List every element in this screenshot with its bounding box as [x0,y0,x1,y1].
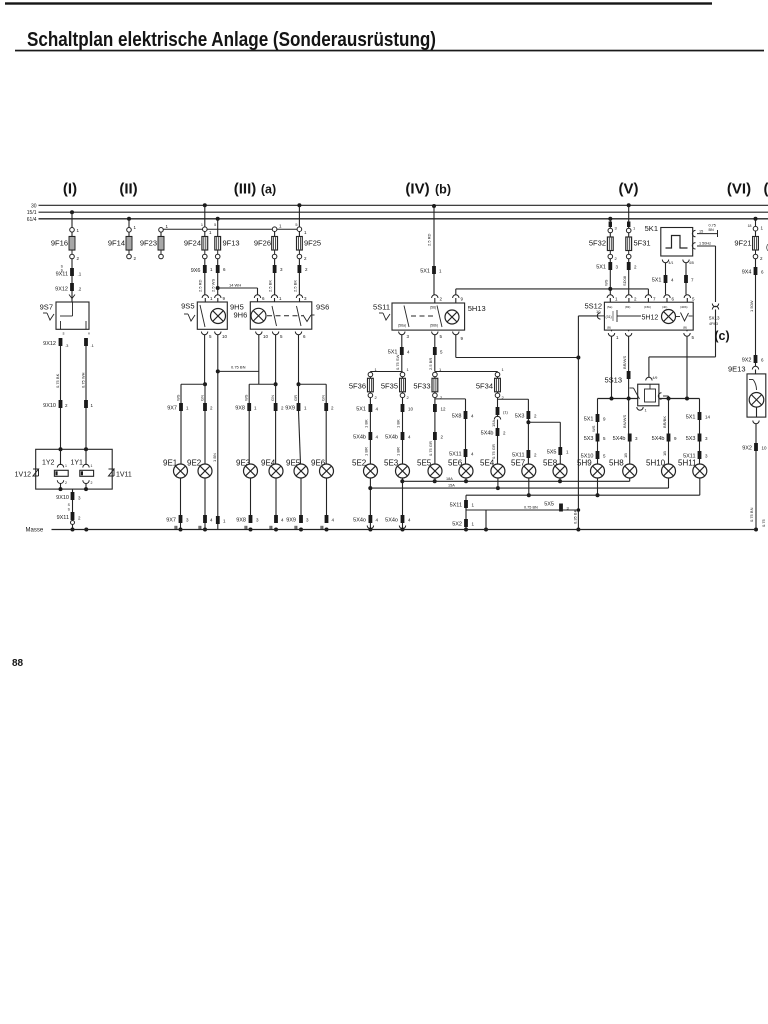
svg-text:(56b): (56b) [430,324,438,328]
node lineC-5H9 [596,493,600,497]
bus 30 [39,204,768,206]
wire [402,398,404,404]
switch 5S11 box [373,303,465,331]
fuse 5F36 [349,367,378,400]
svg-text:2: 2 [305,267,308,272]
connector pin2 [622,262,637,286]
connector 5X4b 3 [481,428,506,459]
connector 9X4 pin6 [742,267,764,276]
svg-text:9X8: 9X8 [235,406,245,412]
connector 5X13 [709,304,720,357]
svg-text:1: 1 [615,297,618,302]
wire [527,419,529,450]
svg-text:▦: ▦ [174,525,178,530]
svg-text:1: 1 [209,230,212,235]
svg-text:1: 1 [166,224,169,229]
wire [699,478,701,495]
svg-text:1 50W: 1 50W [749,300,754,312]
lamp 9E2 [187,459,212,479]
wire [559,455,561,464]
fuse 9F13 [215,237,240,251]
svg-text:(31): (31) [606,315,612,319]
column label (a) [261,183,276,197]
bus 61/4 [39,218,768,220]
svg-text:3: 3 [256,518,259,523]
svg-text:9F13: 9F13 [223,239,240,248]
column label (IV) [405,181,429,198]
svg-text:5X4b: 5X4b [652,436,665,442]
svg-text:1: 1 [134,225,137,230]
wire [699,399,701,413]
connector 5X4b 2 [385,432,411,456]
svg-text:5X3: 5X3 [584,436,594,442]
wire [217,219,219,237]
svg-text:9X4: 9X4 [742,270,752,276]
wire line A 18A [402,477,629,482]
svg-text:9X12: 9X12 [43,341,56,347]
fuse 5F31 [626,237,651,251]
svg-text:1: 1 [279,296,282,301]
svg-text:12: 12 [441,407,447,412]
connector 5X11 pin1 [450,500,475,509]
connector 5X3 pin5 [584,434,606,443]
lamp 5E3 [384,459,410,479]
svg-text:(15b): (15b) [644,305,651,309]
svg-text:5X11: 5X11 [449,452,461,458]
svg-text:2: 2 [78,516,81,521]
wire [629,478,631,481]
node 5S12-t1-join [608,287,612,291]
node bus-9F13 [216,217,220,221]
svg-text:5X4o: 5X4o [353,518,366,524]
svg-text:BN: BN [709,228,715,232]
svg-text:3: 3 [407,334,410,339]
node ground-5X5 [484,528,488,532]
svg-text:2: 2 [281,406,284,411]
connector 5X11 pin4 [449,449,474,458]
svg-text:18: 18 [748,224,752,228]
solenoid 1Y1 [71,449,94,489]
connector 5X10 pin5 [581,451,606,460]
terminal 5S13-r [658,393,668,399]
node ground-9E1 [179,528,208,532]
wire [434,440,436,464]
wire [626,205,636,237]
svg-text:5F31: 5F31 [634,239,651,248]
svg-text:15: 15 [699,230,703,234]
node 0.75BN-branch [216,369,220,373]
svg-text:6: 6 [262,296,265,301]
svg-text:15A: 15A [448,484,455,488]
svg-text:1: 1 [407,367,410,372]
connector 5X1 pin12 [433,404,446,412]
svg-text:BR/BK: BR/BK [662,416,667,428]
svg-text:1: 1 [645,408,648,413]
terminal 9S5-10 [215,332,228,530]
terminal 5S11-9 [453,332,464,358]
terminal 5S11-4 [432,332,443,348]
svg-text:.1: .1 [78,272,82,277]
svg-text:5X8: 5X8 [452,414,462,420]
svg-text:4: 4 [376,407,379,412]
switch 5S13 [604,376,658,406]
wire line D 0.75 BN [466,506,580,512]
node lineA-5E8 [558,479,562,483]
svg-text:GN: GN [321,395,326,401]
svg-text:5H8: 5H8 [609,459,624,468]
column label (VI) [727,181,751,198]
svg-text:3: 3 [615,226,618,231]
node bus-9F14 [127,217,131,221]
node lineA-5E6 [464,479,468,483]
svg-text:2: 2 [91,481,93,485]
connector 9X7 lower [166,515,213,524]
svg-text:4: 4 [376,435,379,440]
svg-text:9F24: 9F24 [184,239,201,248]
svg-text:5F35: 5F35 [381,382,398,391]
svg-text:5: 5 [209,334,212,339]
svg-text:1 BR: 1 BR [396,447,401,456]
wire [272,254,277,265]
svg-text:5X1: 5X1 [356,407,366,413]
wire [369,478,371,515]
node 9E34-split [249,382,277,403]
svg-text:9F25: 9F25 [304,239,321,248]
node feed-3 [667,397,671,401]
wire [61,408,87,449]
wire [215,273,226,302]
fuse 9F24 [184,237,208,251]
wire [752,363,758,374]
wire 0.75 WH [81,346,87,400]
bus 15/1 [39,211,768,213]
svg-text:BR/WS: BR/WS [622,356,627,369]
svg-text:5E2: 5E2 [352,459,367,468]
svg-text:.3: .3 [65,343,69,348]
svg-text:GN: GN [200,395,205,401]
svg-text:2: 2 [77,256,80,261]
wire fuse feed right [435,355,498,372]
svg-text:0.75 GR: 0.75 GR [491,444,496,459]
svg-text:GR: GR [293,395,298,401]
svg-text:(IV): (IV) [405,181,429,198]
connector 5X5 pin1 [547,447,569,456]
terminal 9H6-5 [272,332,283,385]
svg-text:5: 5 [603,436,606,441]
svg-text:1: 1 [91,403,94,408]
svg-text:9: 9 [223,296,226,301]
svg-text:10: 10 [762,446,768,451]
connector 5X1 pin4 relay [652,275,674,295]
lamp 9E4 [261,459,283,479]
svg-text:(a): (a) [261,183,276,197]
lamp 5H10 [646,459,676,479]
svg-text:4: 4 [671,278,674,283]
svg-text:4: 4 [408,518,411,523]
connector pin 3 [268,265,284,292]
wire [597,442,599,452]
svg-text:9X10: 9X10 [56,495,69,501]
wire [434,478,436,481]
bus label 30 [31,204,37,210]
svg-text:9F23: 9F23 [140,239,157,248]
lamp 5H12 [662,310,676,324]
svg-text:▦: ▦ [244,525,248,530]
wire [127,219,137,237]
svg-text:2: 2 [134,256,137,261]
node 9E56-split [297,382,327,403]
fuse partial right edge [761,245,768,528]
svg-text:5F32: 5F32 [589,239,606,248]
wire 50Hz output [692,242,715,302]
lamp 9E6 [311,459,334,479]
connector 5X4o [353,515,378,524]
wire [591,422,598,434]
terminal 5S12-10 [596,309,604,319]
connector 5X8 pin4 [452,411,474,420]
svg-text:3: 3 [635,436,638,441]
svg-text:4: 4 [408,435,411,440]
svg-text:GN: GN [270,395,275,401]
wire [71,520,75,530]
node feed-4 [685,397,689,401]
terminal 5S13-b [637,407,648,413]
svg-text:(4Rb): (4Rb) [680,305,688,309]
connector 9X6 [191,265,213,292]
svg-text:S: S [68,503,71,507]
connector 5X3 pin3 [686,434,708,443]
svg-text:5X4b: 5X4b [613,436,626,442]
wire [432,274,443,303]
svg-text:15A: 15A [491,420,496,427]
wire [497,436,499,464]
connector 9X9 [285,403,334,412]
svg-text:9H6: 9H6 [234,311,248,320]
node bus-9F21 [754,217,758,221]
connector 9X10 pin 3 [56,492,81,501]
lamp 5E8 [543,459,567,479]
svg-text:5X1: 5X1 [596,265,606,271]
column label (III) [234,181,257,198]
wire [748,219,764,237]
svg-text:5X2: 5X2 [452,522,462,528]
svg-text:5: 5 [440,350,443,355]
wire [699,442,701,452]
node bus-5S11 [432,204,436,208]
wire branch [498,398,529,411]
connector pin7 relay [684,275,694,295]
fuse 9F21 [734,237,758,251]
svg-text:9X8: 9X8 [236,518,246,524]
wire 1 BN [212,453,217,462]
label (c) [714,329,729,343]
node feed-1 [610,397,614,401]
svg-text:9X12: 9X12 [55,287,68,293]
connector 9X2 pin10 [742,443,767,452]
lamp 5H9 [577,459,605,479]
svg-text:10: 10 [596,309,601,314]
svg-text:Masse: Masse [26,528,44,534]
svg-text:Schaltplan elektrische Anlage: Schaltplan elektrische Anlage (Sonderaus… [27,29,436,51]
node ground-b [573,509,581,531]
svg-text:2: 2 [304,256,307,261]
connector 5X1 pin9 [584,414,606,423]
terminal 5K1-4/5 [683,260,694,276]
svg-text:1: 1 [439,269,442,274]
svg-text:1: 1 [186,406,189,411]
connector 5X1 pin3 [596,262,618,286]
node b-junction [576,356,580,360]
svg-text:(56): (56) [430,306,436,310]
title Schaltplan elektrische Anlage [27,29,436,51]
svg-text:5H13: 5H13 [468,304,486,313]
wire labels [176,394,205,401]
svg-text:(: ( [764,181,768,198]
svg-text:(4b): (4b) [662,305,667,309]
wire [608,254,618,262]
svg-text:2: 2 [534,414,537,419]
svg-text:9X7: 9X7 [166,518,176,524]
node box-top [59,447,89,451]
svg-text:(II): (II) [119,181,137,198]
svg-text:15/1: 15/1 [27,210,37,216]
svg-text:5X1: 5X1 [388,350,398,356]
lamp 5E4 [480,459,505,479]
connector 5X4b pin3 [613,434,638,459]
terminal 5S11-3 [399,332,410,348]
svg-text:BN/WS: BN/WS [622,415,627,428]
wire fuse feed left [370,355,402,372]
svg-text:1: 1 [91,464,93,468]
node bus-9F25 [295,203,301,227]
svg-text:5X1: 5X1 [420,269,430,275]
wire line C [466,494,700,496]
svg-text:5: 5 [692,335,695,340]
column label (V) [619,181,639,198]
svg-text:4: 4 [407,350,410,355]
wire branch 5E6 [435,399,466,411]
connector BR/WS [622,356,631,379]
column label (VII) partial [764,181,768,198]
connector 9S5-10 lower [216,516,226,524]
wire [68,500,73,512]
svg-text:5X11: 5X11 [450,503,462,509]
wire [559,478,561,481]
wire [69,291,75,302]
svg-text:(III): (III) [234,181,257,198]
svg-text:SD08: SD08 [622,275,627,286]
node bus-5F31 [627,203,631,207]
svg-text:4/9: 4/9 [653,376,658,380]
column label (II) [119,181,137,198]
svg-text:1: 1 [279,224,282,229]
wire [434,412,436,432]
svg-text:2: 2 [760,256,763,261]
svg-text:2: 2 [407,395,410,400]
svg-text:1: 1 [201,223,203,227]
wire 2.5 RD [427,206,435,266]
wire [497,478,499,488]
svg-text:2: 2 [615,256,618,261]
wire fuse stubs [72,250,756,393]
wire [71,276,73,283]
node ground-1 [71,528,89,532]
connector 9X12 lower [43,338,94,348]
terminal 5S12-5 [684,295,695,302]
svg-text:4/5: 4/5 [689,261,694,265]
column label (I) [63,181,77,198]
svg-text:9S7: 9S7 [40,303,53,312]
lamp 5E5 [417,459,442,479]
svg-text:▦: ▦ [320,525,324,530]
terminal 5K1-4/1 [662,260,673,276]
wire stub [485,510,487,530]
wire [369,398,371,404]
connector 9X2 pin6 [742,355,764,364]
svg-text:1Y2: 1Y2 [42,460,55,467]
wire tick [0,0,1,1]
svg-text:1: 1 [210,296,213,301]
svg-text:9S6: 9S6 [316,303,329,312]
svg-text:5: 5 [440,334,443,339]
wire [628,270,630,295]
svg-text:14 WH: 14 WH [229,283,241,288]
wire 0.75 BK [55,346,61,400]
wire [597,399,599,415]
wire fuse link bar [161,228,299,230]
wire [402,478,404,515]
wire [629,442,631,465]
svg-text:6: 6 [672,297,675,302]
svg-text:1: 1 [616,335,619,340]
switch 9S7 [40,302,89,329]
svg-text:1: 1 [223,519,226,524]
svg-text:S: S [68,508,71,512]
svg-text:▦: ▦ [198,525,202,530]
svg-text:5E3: 5E3 [384,459,399,468]
svg-text:5X4o: 5X4o [385,518,398,524]
wire stub [127,254,137,261]
svg-text:1: 1 [502,367,505,372]
svg-text:88: 88 [12,658,24,669]
lamp unit 9E13 box [728,365,766,418]
wire [369,440,371,464]
node box-bottom [59,487,89,491]
svg-text:61/4: 61/4 [27,217,37,223]
svg-text:9E13: 9E13 [728,365,746,374]
connector 5X4b [353,432,378,456]
svg-text:5X1: 5X1 [652,278,662,284]
svg-text:9X2: 9X2 [742,446,752,452]
wire [203,254,208,265]
svg-text:(1): (1) [503,410,509,415]
svg-text:5X3: 5X3 [686,436,696,442]
svg-text:3: 3 [280,267,283,272]
svg-text:s: s [63,331,65,336]
svg-text:1 BR: 1 BR [364,447,369,456]
connector 5X1 pin5 [428,347,443,370]
fuse 5F32 [589,237,613,251]
svg-text:2.5 RD: 2.5 RD [198,279,203,292]
wire 14 WH [218,283,265,302]
svg-text:5X5: 5X5 [544,502,554,508]
svg-text:(VI): (VI) [727,181,751,198]
svg-text:(I): (I) [63,181,77,198]
node lineA-start [400,479,404,483]
svg-text:1: 1 [472,503,475,508]
terminal 9S5-5 [201,332,212,385]
svg-text:9: 9 [603,417,606,422]
